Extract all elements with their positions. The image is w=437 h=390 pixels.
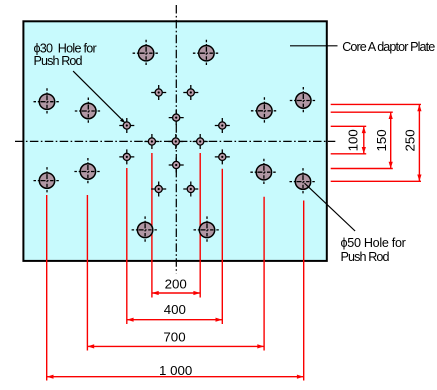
svg-text:Core A daptor Plate: Core A daptor Plate [342, 40, 435, 54]
large hole A top-left [133, 40, 160, 67]
small hole left of center [144, 134, 159, 149]
small hole below center [169, 158, 184, 173]
dimension line 200 [152, 291, 200, 295]
small hole center [168, 134, 183, 149]
extension line 150 bottom [331, 168, 393, 170]
svg-text:400: 400 [164, 302, 186, 317]
svg-text:100: 100 [345, 129, 360, 151]
small hole above center [169, 110, 184, 125]
small hole upper-right steep [183, 85, 198, 100]
dimension line 250 [417, 104, 421, 181]
extension line 700 right [263, 197, 265, 351]
leader line Core Adaptor Plate label [290, 45, 338, 47]
vertical centerline [175, 5, 177, 274]
extension line 700 left [86, 195, 88, 351]
large hole H far right upper [290, 87, 317, 114]
dimension line 700 [87, 344, 264, 348]
horizontal centerline [15, 140, 335, 142]
svg-text:Push Rod: Push Rod [341, 250, 390, 264]
dimension line 400 [127, 318, 223, 322]
small hole right of center [193, 134, 208, 149]
extension line 100 top [331, 125, 367, 127]
extension line 250 top [331, 103, 421, 105]
svg-text:200: 200 [165, 277, 187, 292]
dimension line 100 [362, 126, 366, 154]
large hole C bottom-left [132, 216, 159, 243]
large hole G right upper [251, 97, 278, 124]
extension line 200 right [199, 153, 201, 298]
dimension line 1000 [47, 375, 304, 379]
small hole down-left [119, 149, 134, 164]
extension line 400 left [126, 168, 128, 324]
dimension line 150 [389, 112, 393, 168]
svg-text:Push Rod: Push Rod [34, 54, 83, 68]
svg-text:150: 150 [374, 129, 389, 151]
small hole down-right [215, 149, 230, 164]
extension line 100 bottom [331, 153, 367, 155]
small hole up-right [215, 118, 230, 133]
large hole E far left upper [34, 88, 61, 115]
extension line 1000 right [303, 201, 305, 381]
svg-text:ϕ50 Hole for: ϕ50 Hole for [341, 236, 406, 250]
svg-text:700: 700 [163, 329, 185, 344]
small hole lower-right steep [183, 182, 198, 197]
extension line 200 left [151, 153, 153, 298]
extension line 1000 left [46, 195, 48, 381]
large hole I far left lower [34, 167, 61, 194]
small hole lower-left steep [151, 182, 166, 197]
extension line 150 top [331, 111, 393, 113]
svg-text:250: 250 [403, 129, 418, 151]
large hole B top-right [193, 40, 220, 67]
small hole up-left [119, 118, 134, 133]
large hole F left upper [75, 98, 102, 125]
extension line 400 right [221, 169, 223, 324]
leader line phi50 label [305, 183, 356, 231]
extension line 250 bottom [331, 180, 421, 182]
small hole upper-left steep [151, 85, 166, 100]
svg-text:1 000: 1 000 [159, 363, 192, 378]
large hole L far right lower [290, 168, 317, 195]
large hole D bottom-right [194, 216, 221, 243]
large hole K right lower [250, 159, 277, 186]
large hole J left lower [74, 158, 101, 185]
leader line phi30 label [73, 71, 125, 123]
plate: Core Adaptor Plate body [23, 21, 326, 261]
